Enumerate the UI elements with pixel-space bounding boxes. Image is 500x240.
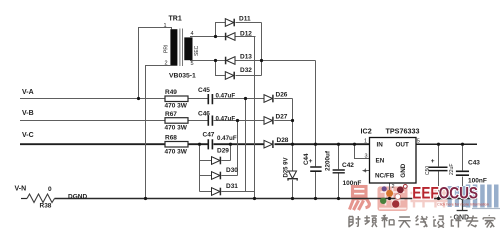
node C42 ground (337, 197, 340, 200)
transformer TR1 primary winding (170, 29, 177, 65)
svg-text:NC/FB: NC/FB (375, 173, 395, 180)
node secondary bottom (214, 59, 217, 62)
svg-text:0.47uF: 0.47uF (216, 116, 236, 123)
wire D26 D27 riser and D25 branch (292, 99, 294, 199)
diode D30 (212, 172, 221, 180)
node D26 riser on V-C (291, 143, 294, 146)
svg-text:D13: D13 (240, 53, 252, 60)
svg-text:V-B: V-B (22, 110, 34, 117)
transformer TR1 secondary winding (184, 37, 192, 60)
node D31 riser on V-A (244, 97, 247, 100)
node C50 ground (437, 197, 440, 200)
capacitor C47 (208, 139, 212, 149)
svg-text:Click here for more informatio: Click here for more information (437, 203, 489, 207)
node C42 top (337, 143, 340, 146)
svg-text:470 3W: 470 3W (165, 148, 188, 155)
svg-text:0.47uF: 0.47uF (217, 135, 237, 142)
svg-text:C46: C46 (198, 111, 210, 118)
char he (381, 215, 394, 227)
svg-text:D25 9V: D25 9V (284, 157, 290, 177)
resistor R67 (165, 118, 188, 124)
svg-text:0: 0 (48, 186, 52, 193)
resistor R38 zigzag (27, 194, 55, 203)
node C44 ground (314, 197, 317, 200)
svg-text:DGND: DGND (68, 194, 87, 201)
wire C42 branch (338, 144, 340, 198)
svg-text:100nF: 100nF (343, 180, 362, 187)
chinese tagline row (349, 215, 495, 227)
svg-text:22uF: 22uF (449, 164, 455, 175)
svg-text:D32: D32 (240, 67, 252, 74)
diode D11 (225, 19, 234, 27)
node C50 top (437, 143, 440, 146)
wire V-C main rail (20, 143, 370, 145)
char pin (364, 216, 377, 228)
diode D28 (264, 140, 273, 148)
svg-text:VB035-1: VB035-1 (169, 73, 196, 80)
char zhuan (466, 216, 478, 228)
char ji (450, 216, 461, 228)
svg-text:1: 1 (164, 23, 167, 29)
wire IC GND pin (389, 183, 391, 199)
svg-text:C43: C43 (468, 159, 480, 166)
diode D32 (225, 72, 234, 80)
svg-text:V-N: V-N (15, 186, 27, 193)
node D27 cathode (291, 119, 294, 122)
wire TR1 pin2 (146, 66, 171, 199)
wire bridge output to C44 node (262, 61, 316, 145)
logo swirl dots (380, 185, 407, 208)
svg-text:IN: IN (377, 142, 384, 149)
svg-text:EEFOCUS: EEFOCUS (412, 184, 478, 203)
wire TR1 pin4 to D12 line (190, 36, 256, 38)
svg-text:+: + (309, 158, 313, 165)
wire C43 branch (462, 144, 464, 198)
svg-text:D12: D12 (240, 31, 252, 38)
diode D31 (212, 188, 221, 196)
svg-text:D11: D11 (239, 15, 251, 22)
wire bridge inner vertical to ground (254, 37, 256, 199)
wire OUT rail (416, 143, 477, 145)
voltage regulator IC2 TPS76333 (370, 138, 417, 184)
svg-text:TPS76333: TPS76333 (386, 127, 420, 136)
wire EN riser (355, 144, 370, 158)
node TR1 pin1 / V-A (137, 97, 140, 100)
char jia (483, 215, 495, 227)
diode D26 (264, 95, 273, 103)
node D29 riser on V-C (229, 143, 232, 146)
svg-text:4: 4 (191, 31, 194, 37)
watermark char di pink tile (378, 187, 408, 212)
char she2 (433, 216, 444, 228)
svg-text:PRI: PRI (164, 45, 170, 53)
svg-text:D29: D29 (217, 148, 229, 155)
svg-text:1: 1 (364, 139, 367, 145)
wire TR1 pin1 (139, 28, 172, 99)
svg-text:R68: R68 (165, 135, 177, 142)
node D25 ground (291, 197, 294, 200)
svg-text:IC2: IC2 (361, 127, 372, 136)
wire V-A line (20, 98, 293, 100)
wire C44 branch (315, 144, 317, 198)
wire bridge outer vertical (261, 23, 263, 76)
svg-text:0.47uF: 0.47uF (216, 92, 236, 99)
node TR1 pin2 ground (144, 197, 147, 200)
node C43 top (461, 143, 464, 146)
node C43 ground (461, 197, 464, 200)
svg-text:GND: GND (400, 163, 407, 177)
watermark faint glyphs behind logo text (411, 189, 449, 208)
svg-text:D27: D27 (276, 114, 288, 121)
diode D12 (226, 33, 235, 41)
wire TR1 pin5 / D13 line (190, 60, 262, 62)
svg-text:D31: D31 (226, 183, 238, 190)
svg-text:470 3W: 470 3W (165, 125, 188, 132)
wire D31 line (200, 99, 255, 192)
svg-text:5: 5 (417, 139, 420, 145)
diode D27 (264, 117, 273, 125)
capacitor C45 (208, 94, 212, 104)
wire D11 line (216, 23, 262, 37)
wire V-N stub (21, 198, 27, 200)
transformer TR1 core (180, 29, 183, 67)
svg-text:5: 5 (191, 61, 194, 67)
zener diode D25 (288, 171, 297, 181)
wire D29 line (200, 144, 231, 160)
svg-text:2: 2 (392, 184, 395, 190)
watermark char yi pink (350, 187, 370, 211)
wire V-B line (20, 120, 293, 122)
wire D32 line (216, 61, 262, 76)
svg-text:V-A: V-A (22, 89, 34, 96)
svg-text:4: 4 (364, 168, 367, 174)
LOGO (349, 184, 495, 228)
svg-text:2200uf: 2200uf (325, 150, 332, 171)
wire C50 branch (438, 144, 440, 198)
watermark blue glyph blocks (448, 186, 466, 207)
wire NC/FB stub (363, 170, 370, 172)
svg-text:R38: R38 (40, 203, 52, 210)
svg-text:2: 2 (165, 61, 168, 67)
node IC GND ground (388, 197, 391, 200)
diode D13 (226, 57, 235, 65)
node bridge output (260, 59, 263, 62)
svg-text:D30: D30 (226, 167, 238, 174)
svg-text:V-C: V-C (22, 132, 34, 139)
resistor R49 (165, 96, 188, 102)
capacitor C46 (208, 116, 212, 126)
svg-text:470 3W: 470 3W (165, 102, 188, 109)
capacitor C44 electrolytic (310, 167, 321, 171)
node EN riser (353, 143, 356, 146)
diode D29 (212, 157, 221, 165)
svg-text:D28: D28 (277, 137, 289, 144)
char tian (398, 217, 410, 228)
wire ground rail (55, 198, 478, 200)
svg-text:OUT: OUT (396, 142, 409, 149)
ground symbol stub (457, 199, 468, 211)
svg-text:C50: C50 (425, 166, 431, 175)
svg-text:EN: EN (376, 158, 385, 165)
capacitor C43 (456, 171, 469, 175)
node C44 top (314, 143, 317, 146)
svg-text:+: + (431, 158, 435, 165)
resistor R68 (165, 142, 188, 148)
capacitor C50 electrolytic (428, 167, 447, 170)
svg-text:TR1: TR1 (169, 16, 182, 23)
svg-text:C45: C45 (198, 87, 210, 94)
svg-text:R67: R67 (165, 111, 177, 118)
WATERMARK-BG (350, 185, 500, 212)
svg-text:3: 3 (365, 154, 368, 160)
node anode feed on V-C (198, 143, 201, 146)
node bridge minus ground (253, 197, 256, 200)
watermark blue bars (466, 185, 500, 210)
char xian (416, 216, 428, 228)
capacitor C42 (333, 170, 345, 173)
char she (349, 216, 361, 227)
svg-text:R49: R49 (165, 89, 177, 96)
svg-text:C47: C47 (203, 132, 215, 139)
svg-text:D26: D26 (276, 92, 288, 99)
node secondary top (214, 35, 217, 38)
svg-text:SEC: SEC (194, 45, 200, 56)
svg-text:C42: C42 (342, 162, 354, 169)
node D30 riser on V-B (236, 119, 239, 122)
wire D30 line (200, 121, 238, 176)
wire diode anode feed vertical (199, 144, 201, 191)
